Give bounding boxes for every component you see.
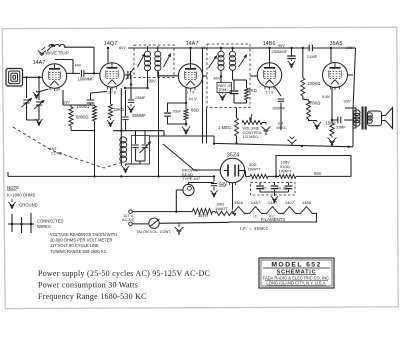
svg-text:.005MF: .005MF (272, 105, 286, 110)
svg-text:WIRES: WIRES (37, 224, 51, 229)
svg-text:.05MF: .05MF (135, 95, 147, 100)
svg-text:I.F. = 456KC: I.F. = 456KC (240, 226, 269, 231)
capacitor C13 .03MF (332, 119, 338, 121)
wire R1 R2 bottoms to bus (70, 126, 72, 131)
wire V5 grid cap to top bus (330, 48, 332, 63)
svg-text:1 7 8: 1 7 8 (266, 91, 274, 95)
capacitor C4 padder (125, 90, 127, 116)
filament string sawtooth (229, 207, 317, 222)
ground under R4 (182, 125, 190, 134)
transformer T3 output primary (355, 108, 357, 128)
svg-text:.01uF: .01uF (218, 183, 229, 188)
wire plate stub to transformer (348, 74, 354, 76)
svg-text:1WATT: 1WATT (279, 168, 293, 173)
wire double drop B (206, 108, 208, 144)
wire V1 grid cap box (55, 59, 73, 61)
wire V3 plate stub (203, 75, 207, 77)
coil L4 IF1 secondary (157, 48, 159, 51)
connected wires legend (8, 223, 34, 225)
wire B+ drop to bus (158, 72, 160, 177)
svg-text:50KΩ: 50KΩ (247, 88, 257, 93)
capacitor C17 .01MF line (211, 184, 217, 186)
svg-text:K=1000 OHMS: K=1000 OHMS (7, 192, 35, 197)
svg-text:TALON VOL. CONT.: TALON VOL. CONT. (136, 229, 171, 234)
resistor R8 220K ohm (301, 78, 305, 96)
switch on-off (132, 223, 149, 225)
potentiometer R7 volume control 1/2 MEG (242, 121, 262, 125)
capacitor C16 20MF (288, 183, 290, 186)
mains terminal lower (129, 222, 133, 226)
resistor R11 30 ohm filter (250, 174, 268, 178)
mains terminal upper (129, 210, 133, 214)
wire transformer bottom stub (353, 127, 356, 129)
svg-text:05MMF: 05MMF (132, 113, 146, 118)
node wave trap / coupling junction (93, 72, 95, 74)
wire B+ rect top (276, 156, 351, 177)
wire V4 grid cap to top bus (269, 48, 271, 63)
svg-text:22KΩ: 22KΩ (114, 107, 125, 112)
box IF transformer T2 (dashed) (207, 44, 250, 108)
capacitor C8 .05MF loop (168, 103, 187, 112)
svg-text:117 VOLT 60 CYCLE LINE: 117 VOLT 60 CYCLE LINE (50, 243, 99, 248)
ground inside T2 (219, 93, 227, 101)
node R6 bus (235, 142, 237, 144)
svg-text:.01MF: .01MF (306, 54, 318, 59)
svg-text:44 V.: 44 V. (189, 96, 198, 101)
svg-text:14A7: 14A7 (33, 60, 46, 66)
wire V1 plate to coupling cap (67, 72, 80, 74)
wire osc frame left (120, 131, 122, 166)
tuning capacitor C1 antenna section (26, 77, 28, 98)
node osc junction (120, 130, 122, 132)
svg-text:CONNECTED: CONNECTED (37, 218, 64, 223)
svg-text:AC-DC: AC-DC (122, 217, 135, 222)
resistor R3 22K ohm (110, 88, 112, 104)
wave trap trimmer arrow (47, 45, 54, 52)
box electrolytic capacitors (dashed) (251, 183, 296, 196)
resistor R2 100K ohm (94, 105, 96, 106)
wire osc horizontal (113, 130, 164, 132)
wire 65V line (296, 175, 351, 177)
svg-text:250MMF: 250MMF (272, 49, 288, 54)
ground under R3 (107, 118, 114, 126)
ground at volume control (262, 123, 271, 135)
wire top B+ bus (128, 47, 356, 49)
svg-text:9.8V: 9.8V (322, 94, 331, 99)
loop antenna (6, 69, 23, 87)
wire IF2 secondary down (232, 75, 234, 80)
pilot lamp #47 (183, 184, 194, 195)
ground under V1 cathode (37, 89, 49, 92)
resistor R4 68 ohm (185, 88, 187, 109)
capacitor C7 osc tuning (144, 131, 146, 144)
node 220K top bus (302, 47, 304, 49)
ground wave trap (38, 47, 46, 55)
svg-text:30: 30 (262, 186, 267, 191)
svg-text:220KΩ: 220KΩ (308, 81, 321, 86)
resistor R1 6800 ohm (70, 105, 72, 107)
wire V1 screen drop (62, 90, 64, 105)
tube V4 14B6 det-AVC-audio (257, 63, 281, 87)
wire wave trap to grid node (64, 46, 94, 48)
svg-text:14A7: 14A7 (186, 41, 199, 47)
wire electrolytic commons (260, 191, 289, 193)
svg-text:1 MEG.: 1 MEG. (218, 125, 232, 130)
svg-text:MEG.: MEG. (277, 125, 287, 130)
svg-text:105V: 105V (346, 46, 355, 50)
wire osc bottoms (136, 160, 146, 162)
wire lamp left (176, 189, 183, 191)
wire C11 into volume wiper (280, 126, 282, 130)
svg-text:7 1 8: 7 1 8 (51, 87, 58, 91)
svg-text:I.F.: I.F. (253, 215, 258, 219)
coil L5 IF2 primary (220, 47, 222, 49)
wire 220K top (302, 48, 304, 78)
svg-text:Power consumption 30 Watts: Power consumption 30 Watts (38, 281, 138, 290)
wire tuning cap commons (27, 119, 40, 121)
svg-text:20: 20 (283, 186, 288, 191)
capacitor C12 .01MF coupling on bus (310, 45, 312, 52)
node middle bus right (347, 146, 349, 148)
ground under 470K (309, 119, 318, 121)
resistor R5 50K ohm (246, 80, 248, 88)
svg-text:TRIM.: TRIM. (218, 88, 227, 92)
node bus end (213, 175, 215, 177)
node V3 grid top bus (189, 47, 191, 49)
svg-text:1 7 8: 1 7 8 (187, 91, 195, 95)
svg-text:68Ω: 68Ω (191, 108, 199, 113)
node V4 grid top bus (268, 47, 270, 49)
svg-text:1486: 1486 (302, 200, 312, 205)
svg-text:14A7: 14A7 (251, 200, 261, 205)
wire bus end drop (213, 176, 215, 181)
capacitor C11 .005MF (275, 87, 281, 96)
wire T2 bottom link (234, 102, 247, 104)
wire IF1 primary return (147, 71, 149, 88)
coil L6 IF2 secondary (231, 47, 233, 49)
ground under oscillator coil (122, 164, 129, 172)
node R bottom on bus (93, 175, 95, 177)
ground on AC return (175, 222, 184, 234)
svg-text:100KΩ: 100KΩ (77, 104, 90, 109)
wire main ground bus (8, 175, 214, 177)
svg-text:65V: 65V (314, 171, 322, 176)
wire IF2 leads (220, 77, 222, 83)
resistor R14 30 ohm line (215, 211, 236, 215)
resistor R10 150 ohm (331, 88, 333, 123)
svg-text:1WATT: 1WATT (215, 206, 229, 211)
wire V3 grid cap to top bus (190, 48, 192, 64)
svg-text:63V: 63V (63, 101, 70, 105)
resistor R6 1 MEG (236, 108, 238, 119)
transformer T3 core (362, 107, 364, 130)
wire diagonal to V6 (163, 144, 194, 170)
wire V6 plate down (232, 183, 234, 210)
capacitor C15 40MF (274, 183, 276, 186)
node antenna junction 1 (25, 76, 27, 78)
wire AC upper (132, 211, 192, 213)
svg-text:35YR: 35YR (198, 213, 208, 218)
wire V4 grid stub (250, 75, 257, 77)
node lamp on AC line (175, 210, 177, 212)
svg-text:1WATT: 1WATT (248, 167, 262, 172)
tube V6 35Z4 rectifier (220, 158, 244, 182)
svg-text:MODEL 652: MODEL 652 (271, 262, 321, 269)
svg-text:.05uF: .05uF (172, 110, 182, 114)
node middle bus left (213, 142, 215, 144)
wire AC upper cont (213, 211, 216, 213)
svg-text:TYPE #47: TYPE #47 (182, 176, 201, 181)
coil L1 wave trap (49, 44, 65, 47)
svg-text:1/2 MEG.: 1/2 MEG. (243, 134, 260, 139)
svg-text:3545: 3545 (234, 200, 244, 205)
tuning capacitor C2 antenna trimmer (38, 77, 40, 100)
wire middle bus (214, 136, 353, 147)
tube V1 14A7 converter (42, 64, 66, 88)
wire V2 grid cap to top bus (107, 48, 109, 63)
speaker neck (382, 115, 386, 117)
ground legend symbol (8, 199, 15, 208)
node filter mid (275, 175, 277, 177)
trimmer arrow IF2 primary (209, 56, 217, 68)
svg-text:100MMF: 100MMF (78, 77, 95, 82)
ground under C5 (127, 104, 134, 112)
svg-text:1407: 1407 (285, 200, 295, 205)
capacitor cathode bypass V1 (91, 92, 108, 94)
svg-text:14Q7: 14Q7 (104, 41, 117, 47)
trimmer arrow IF2 secondary (239, 55, 247, 67)
trimmer arrow IF1 secondary (164, 54, 171, 67)
ground under electrolytics (271, 194, 278, 202)
svg-text:VOLTAGE READINGS TAKEN WITH: VOLTAGE READINGS TAKEN WITH (50, 232, 117, 237)
svg-text:1 7 8: 1 7 8 (108, 91, 116, 95)
svg-text:44V: 44V (75, 64, 82, 68)
svg-text:COND.: COND. (51, 150, 64, 155)
wire osc right drop (163, 131, 165, 136)
node V5 grid top bus (330, 47, 332, 49)
svg-text:35A5: 35A5 (330, 41, 343, 47)
svg-text:LONG ISLAND CITY, N.Y. U.S.A.: LONG ISLAND CITY, N.Y. U.S.A. (266, 281, 326, 286)
wire dashed tuning gang link (13, 127, 121, 168)
svg-text:93V: 93V (344, 98, 351, 103)
tube V2 14Q7 oscillator-mixer (100, 63, 124, 87)
svg-text:GROUND: GROUND (19, 202, 38, 207)
capacitor C9 in T2 (230, 91, 239, 94)
svg-text:90V: 90V (149, 79, 157, 84)
trimmer arrow IF1 primary (138, 54, 145, 67)
coil L3 IF1 primary (147, 48, 149, 51)
wire V2 cathode to osc (120, 88, 122, 131)
svg-text:6800Ω: 6800Ω (76, 115, 88, 120)
svg-text:95V: 95V (278, 44, 285, 48)
svg-text:14B6: 14B6 (263, 41, 276, 47)
svg-text:80V: 80V (119, 46, 126, 50)
svg-text:20,000 OHMS PER VOLT METER: 20,000 OHMS PER VOLT METER (50, 238, 112, 243)
capacitor C14 30MF (259, 183, 261, 186)
resistor R13 35YR ballast (193, 209, 213, 215)
wire V6 cathode to filter (242, 170, 246, 172)
node bus x121 (120, 175, 122, 177)
node middle bus g (301, 145, 303, 147)
tube V5 35A5 output (323, 63, 348, 88)
svg-text:.03MF: .03MF (335, 124, 347, 129)
wire lamp top (188, 183, 190, 185)
wire IF1 secondary to V3 (159, 75, 179, 77)
model box inner frame (261, 260, 332, 286)
node V2 grid top bus (107, 47, 109, 49)
wire V2 right stub (124, 74, 127, 76)
svg-text:35Z4: 35Z4 (227, 152, 240, 158)
model box outer frame (259, 258, 334, 288)
wire double drop A (202, 48, 204, 143)
node drop on bus (157, 175, 159, 177)
speaker cone (386, 108, 393, 129)
capacitor C3 100MMF coupling (82, 70, 84, 77)
transformer T3 secondary (367, 113, 372, 118)
resistor R9 470K ohm (303, 96, 309, 101)
label PART OF TRIM (217, 83, 232, 93)
capacitor C5 .05MF IF bypass (128, 100, 134, 102)
svg-text:TUNING RANGE 528-1680 KC: TUNING RANGE 528-1680 KC (50, 249, 107, 254)
resistor R12 910 ohm (268, 175, 279, 177)
ground under tuning capacitors (35, 117, 42, 125)
speaker driver (368, 111, 382, 126)
coil L2 oscillator (120, 137, 127, 143)
svg-text:14A7: 14A7 (268, 200, 278, 205)
node antenna junction 2 (38, 76, 40, 78)
ground under 150 ohm (328, 136, 337, 145)
wire top bus right corner down (353, 48, 356, 147)
ground on middle bus (288, 137, 297, 146)
svg-text:Power supply (25-50 cycles AC): Power supply (25-50 cycles AC) 95-125V A… (38, 269, 210, 278)
box IF transformer T1 (dashed) (134, 45, 174, 78)
box oscillator trimmer enclosure (132, 136, 150, 165)
wire antenna to V1 grid (23, 76, 43, 78)
ground under C17 (210, 189, 217, 197)
svg-text:FILAMENTS: FILAMENTS (261, 217, 286, 222)
wire IF1 leads (147, 46, 149, 48)
svg-text:WAVE TRAP: WAVE TRAP (45, 51, 69, 56)
svg-text:Frequency Range 1680-530 KC: Frequency Range 1680-530 KC (38, 292, 147, 301)
capacitor C6 osc fixed (135, 131, 137, 144)
capacitor C10 250MMF (290, 47, 292, 49)
svg-text:NOTE: NOTE (7, 185, 19, 190)
svg-text:470KΩ: 470KΩ (308, 101, 321, 106)
svg-text:80V: 80V (214, 75, 221, 80)
tube V3 14A7 IF amplifier (178, 64, 202, 88)
svg-text:40: 40 (277, 186, 282, 191)
